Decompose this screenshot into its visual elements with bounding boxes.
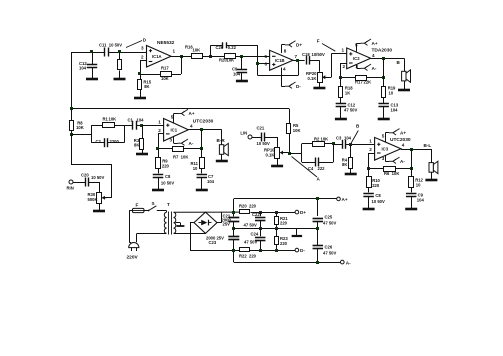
node column plus <box>232 211 235 214</box>
capacitor C9 <box>237 69 248 71</box>
svg-text:C23: C23 <box>209 240 217 245</box>
capacitor C2 2200 <box>104 138 106 147</box>
node fb2 left <box>367 167 370 170</box>
ground R30 <box>93 210 105 213</box>
capacitor C22 <box>260 212 262 216</box>
svg-text:C18: C18 <box>302 52 310 57</box>
speaker B (top channel) <box>402 71 406 81</box>
resistor R2 10K <box>313 142 325 147</box>
svg-text:T: T <box>167 202 170 207</box>
ground R12/C9b <box>405 208 417 211</box>
svg-text:RIN: RIN <box>67 186 74 191</box>
svg-text:8K: 8K <box>134 143 139 148</box>
wire long mixing rail <box>71 108 289 110</box>
net label A with pointer line <box>292 157 318 178</box>
svg-text:47 50V: 47 50V <box>344 108 357 113</box>
svg-text:C22: C22 <box>252 212 260 217</box>
svg-text:F: F <box>317 39 320 44</box>
wire R20 to IC1B pin5 <box>242 56 270 58</box>
wire IC3 output vertical <box>411 149 413 177</box>
power stub IC3 V+ pin5 <box>385 133 387 142</box>
potentiometer RP20 <box>318 73 323 83</box>
wire IC2 output <box>371 58 404 60</box>
svg-text:A+: A+ <box>400 131 406 136</box>
ground R18/C12 branch <box>335 118 347 121</box>
svg-text:104: 104 <box>233 72 241 77</box>
wire bridge plus to rail <box>217 222 222 224</box>
power stub IC1B V+ pin8 <box>281 45 283 53</box>
resistor R23 220 vertical <box>275 237 279 245</box>
svg-text:2: 2 <box>158 128 161 133</box>
power stub IC1 V- pin3 <box>173 137 175 144</box>
svg-text:2200: 2200 <box>110 139 120 144</box>
ground RP10 <box>271 165 283 168</box>
resistor R21 220 vertical <box>275 217 279 225</box>
wire IC1A output <box>171 56 211 58</box>
ground R9/C8 <box>152 189 164 192</box>
svg-text:A+: A+ <box>372 41 378 46</box>
node IC1 output <box>200 128 203 131</box>
node rail left <box>70 107 73 110</box>
node IC1A feedback <box>138 72 141 75</box>
wire IC1 output <box>188 129 222 131</box>
svg-text:4: 4 <box>402 143 405 148</box>
node R8 bottom <box>70 133 73 136</box>
right filter column <box>317 199 319 216</box>
svg-text:104: 104 <box>207 179 215 184</box>
node C22 tap <box>259 211 262 214</box>
node IC1B output <box>296 59 299 62</box>
capacitor C26b <box>313 245 324 247</box>
resistor R5 from rail <box>287 124 291 134</box>
resistor R17b 22K feedback <box>356 76 367 81</box>
ground R3 <box>136 153 148 156</box>
svg-text:104: 104 <box>79 66 87 71</box>
svg-text:104: 104 <box>344 136 352 141</box>
node feedback right <box>382 76 385 79</box>
ground R15 <box>134 97 146 100</box>
power stub IC1B V- pin4 <box>281 68 283 87</box>
capacitor C12 <box>87 64 98 66</box>
capacitor C9b <box>406 193 417 195</box>
svg-text:D-: D- <box>300 248 305 253</box>
capacitor C21 input <box>261 133 263 142</box>
svg-text:1: 1 <box>342 48 345 53</box>
potentiometer RP10 volume <box>275 148 280 159</box>
filter capacitor C21 2000/25V <box>233 212 235 216</box>
wire secondary bottom to bridge <box>174 233 206 235</box>
svg-text:LIN: LIN <box>240 131 247 136</box>
ground bias resistor <box>114 78 126 81</box>
potentiometer R30 volume <box>97 193 102 204</box>
svg-text:D+: D+ <box>296 43 302 48</box>
power stub IC2 V- pin3 <box>356 65 358 69</box>
wire IC1A pin2 <box>140 60 147 62</box>
capacitor C13 <box>378 103 389 105</box>
resistor R12 zobel <box>409 177 414 188</box>
op-amp U3 UTC2030 left channel <box>164 119 189 142</box>
svg-text:10K: 10K <box>161 76 169 81</box>
op-amp U1A NE5532 <box>147 46 172 68</box>
resistor R15 to ground <box>138 80 142 90</box>
svg-text:A-: A- <box>372 66 377 71</box>
node loop2 out <box>332 142 335 145</box>
ground mid rail <box>296 229 298 235</box>
svg-text:C26: C26 <box>216 45 224 50</box>
svg-text:220: 220 <box>162 164 170 169</box>
wire to RP10 <box>277 137 279 147</box>
wire left vertical bus <box>71 52 73 109</box>
ground R19/C13 branch <box>378 118 390 121</box>
ground R11/C7 <box>196 189 208 192</box>
resistor R11 zobel <box>200 158 205 169</box>
node C11 right <box>118 50 121 53</box>
wire loop2 right edge <box>333 144 335 162</box>
wire IC2 output vertical to zobel <box>383 58 385 87</box>
svg-text:10: 10 <box>389 91 394 96</box>
node column mid <box>232 227 235 230</box>
node IC1A output <box>180 55 183 58</box>
svg-text:1K: 1K <box>345 91 350 96</box>
svg-text:IC2: IC2 <box>353 56 360 61</box>
ground C12 <box>86 78 98 81</box>
svg-text:8K: 8K <box>342 162 347 167</box>
ground speaker B <box>398 89 410 92</box>
svg-text:10 50V: 10 50V <box>91 175 104 180</box>
wire C18 to RP20 <box>309 60 319 62</box>
wire plug left to fuse <box>129 242 131 244</box>
wire loop2 left edge <box>301 144 303 162</box>
node C1 out <box>140 124 143 127</box>
wire PSU bottom outer rail <box>234 262 341 264</box>
svg-text:UTC2030: UTC2030 <box>193 119 214 125</box>
capacitor C18 <box>306 56 308 65</box>
svg-text:47 50V: 47 50V <box>323 221 336 226</box>
capacitor C8 electrolytic <box>153 174 164 176</box>
svg-text:10 50V: 10 50V <box>372 199 385 204</box>
op-amp U2 TDA2030 <box>347 48 371 69</box>
svg-text:47 50V: 47 50V <box>244 240 257 245</box>
svg-text:1: 1 <box>369 139 372 144</box>
ground R10/C8b <box>363 208 375 211</box>
svg-text:R6 10K: R6 10K <box>384 171 399 176</box>
svg-text:4: 4 <box>190 124 193 129</box>
svg-text:D+: D+ <box>300 210 306 215</box>
svg-text:0.1K: 0.1K <box>308 76 317 81</box>
wire loop right edge <box>124 125 126 143</box>
svg-text:10K: 10K <box>193 48 201 53</box>
svg-text:R17: R17 <box>355 80 363 85</box>
bridge rectifier diamond <box>194 212 217 233</box>
svg-text:2: 2 <box>141 55 144 60</box>
capacitor C3 104 <box>342 140 344 149</box>
wire PSU top outer rail <box>233 199 235 212</box>
svg-text:IC1: IC1 <box>171 128 178 133</box>
wire R30 wiper to R8 node <box>104 197 112 199</box>
svg-text:R20 220: R20 220 <box>239 204 257 209</box>
input connector RIN <box>69 180 73 184</box>
svg-text:C2: C2 <box>96 139 102 144</box>
svg-text:3: 3 <box>170 137 173 142</box>
wire RP20 wiper to IC2 pin1 <box>325 77 331 79</box>
capacitor C11 <box>104 48 106 57</box>
svg-text:IC3: IC3 <box>382 147 389 152</box>
wire secondary top to bridge and rail <box>174 211 240 213</box>
wire plug right to transformer primary <box>136 242 138 244</box>
wire bridge minus to bottom rail1 <box>190 222 194 224</box>
svg-text:C11 10 50V: C11 10 50V <box>99 43 122 48</box>
ground speaker B-L <box>425 179 437 182</box>
svg-text:10K: 10K <box>227 58 235 63</box>
ground C9 <box>236 80 248 83</box>
node IC1B pin6 <box>256 62 259 65</box>
node fb left <box>156 147 159 150</box>
svg-text:4: 4 <box>372 53 375 58</box>
resistor R22 220 <box>240 248 250 252</box>
bridge diode symbol <box>201 220 207 226</box>
svg-text:4: 4 <box>283 67 286 72</box>
node junction C12/top wire <box>90 50 93 53</box>
wire IC1B pin6 <box>258 63 270 65</box>
svg-text:104: 104 <box>417 198 425 203</box>
wire IC1 pin2 <box>158 133 164 135</box>
svg-text:C8: C8 <box>165 174 171 179</box>
mains plug 220V <box>129 243 139 248</box>
wire R8 node to RC loop <box>71 134 91 136</box>
svg-text:10/50V: 10/50V <box>312 52 325 57</box>
wire IC3 pin2 <box>369 153 375 155</box>
node mid R21 <box>275 227 278 230</box>
transformer core <box>168 212 170 235</box>
ground RP20 <box>313 87 325 90</box>
svg-text:C3: C3 <box>336 136 342 141</box>
svg-text:A-: A- <box>189 141 194 146</box>
center tap ground <box>176 222 181 224</box>
svg-text:8K: 8K <box>144 84 149 89</box>
svg-text:A+: A+ <box>189 111 195 116</box>
power stub IC1 V+ pin5 <box>173 114 175 124</box>
wire to speaker B <box>404 58 406 71</box>
node feedback left <box>339 76 342 79</box>
svg-text:5: 5 <box>265 54 268 59</box>
node top rail right column <box>316 197 319 200</box>
svg-text:R2: R2 <box>314 137 320 142</box>
wire IC1B output <box>293 60 305 62</box>
wire loop left edge <box>91 125 93 143</box>
svg-text:10 50V: 10 50V <box>161 181 174 186</box>
node mid rail right column <box>316 227 319 230</box>
svg-text:IC1A: IC1A <box>152 54 162 59</box>
capacitor C20 input <box>85 178 87 187</box>
svg-text:R22 220: R22 220 <box>239 254 257 259</box>
resistor R9 <box>156 158 161 169</box>
resistor R7 feedback <box>173 147 184 152</box>
net label F with pointer line <box>322 44 335 52</box>
svg-text:A-: A- <box>400 159 405 164</box>
svg-text:10: 10 <box>416 183 421 188</box>
node R21 top <box>275 211 278 214</box>
resistor R18 <box>339 87 343 98</box>
svg-text:A+: A+ <box>342 197 348 202</box>
svg-text:47 50V: 47 50V <box>323 251 336 256</box>
resistor R16 <box>192 54 203 59</box>
node mid C22 <box>259 227 262 230</box>
svg-text:6: 6 <box>265 62 268 67</box>
speaker B-R left channel <box>219 145 223 155</box>
resistor R19 <box>382 87 386 98</box>
net label D with pointer line <box>126 41 142 48</box>
resistor R8 <box>70 121 74 131</box>
wire to speaker B-L <box>431 149 433 163</box>
node IC2 output <box>382 57 385 60</box>
svg-text:R7 10K: R7 10K <box>173 155 188 160</box>
resistor bias (vertical) at input <box>118 60 122 70</box>
svg-text:8: 8 <box>284 48 287 53</box>
svg-text:B-R: B-R <box>217 138 226 143</box>
svg-text:104: 104 <box>391 108 399 113</box>
svg-text:C20: C20 <box>81 173 89 178</box>
svg-text:2: 2 <box>369 147 372 152</box>
fuse F <box>132 208 144 212</box>
wire junction to RC loop 2 <box>289 153 302 155</box>
net label B with pointer line <box>351 131 358 144</box>
capacitor C26 0.22 in top branch <box>222 42 224 48</box>
svg-text:NE5532: NE5532 <box>157 40 175 46</box>
ground R4 <box>345 173 357 176</box>
svg-text:1: 1 <box>158 120 161 125</box>
wire IC1 output vertical <box>201 130 203 158</box>
wire PSU mid rail ground <box>234 228 318 230</box>
svg-text:2: 2 <box>343 64 346 69</box>
svg-text:D-: D- <box>296 84 301 89</box>
node fb2 right <box>410 167 413 170</box>
power stub IC2 V+ pin5 <box>356 43 358 51</box>
ground speaker B-R <box>216 160 228 163</box>
svg-text:A-: A- <box>346 260 351 265</box>
resistor R20b 220 <box>240 210 250 214</box>
node mixing junction <box>288 152 291 155</box>
svg-text:C24: C24 <box>251 232 259 237</box>
svg-text:C21: C21 <box>257 125 265 130</box>
svg-text:0.1K: 0.1K <box>266 152 275 157</box>
node rail1 R23 <box>275 249 278 252</box>
resistor R1 10K <box>103 123 115 128</box>
transformer secondary winding <box>174 212 176 233</box>
resistor R4 to ground <box>349 158 353 169</box>
svg-text:10K: 10K <box>321 137 329 142</box>
node C9 tap <box>240 55 243 58</box>
svg-text:R17: R17 <box>161 66 169 71</box>
power stub IC3 V- pin3 <box>385 156 387 162</box>
svg-text:10K: 10K <box>109 117 117 122</box>
svg-text:220V: 220V <box>127 255 139 261</box>
svg-text:5: 5 <box>382 134 385 139</box>
svg-text:S: S <box>152 201 155 206</box>
svg-text:UTC2030: UTC2030 <box>390 137 411 143</box>
op-amp U1B NE5532 <box>270 50 293 70</box>
resistor R6 feedback <box>384 167 396 172</box>
speaker B-L right channel <box>429 163 433 173</box>
capacitor C1 104 <box>132 121 134 130</box>
wire top-left input segment <box>71 52 104 54</box>
svg-text:1: 1 <box>173 49 176 54</box>
svg-text:10K: 10K <box>76 125 84 130</box>
svg-text:C26: C26 <box>325 245 333 250</box>
svg-text:25V: 25V <box>223 222 231 227</box>
capacitor C4 222 <box>315 158 317 167</box>
node fb right <box>200 147 203 150</box>
svg-text:7: 7 <box>295 54 298 59</box>
wire to speaker B-R <box>221 130 223 145</box>
svg-text:220: 220 <box>372 183 380 188</box>
terminal minus output <box>341 260 345 264</box>
svg-text:3: 3 <box>141 46 144 51</box>
switch S <box>144 210 148 212</box>
svg-text:B-L: B-L <box>424 143 432 148</box>
filter capacitor C23 2000/25V <box>228 236 239 238</box>
wire feedback branch up-over <box>210 45 212 56</box>
svg-text:0.22: 0.22 <box>228 45 237 50</box>
wire IC2 pin2 <box>341 63 347 65</box>
resistor R3 to ground <box>140 139 144 150</box>
wire RP10 wiper junction <box>282 152 289 154</box>
terminal D+ output <box>295 210 299 214</box>
wire to R30 pot <box>99 182 101 192</box>
svg-text:IC1B: IC1B <box>275 58 285 63</box>
svg-text:C8: C8 <box>375 193 381 198</box>
svg-text:TDA2030: TDA2030 <box>372 48 393 54</box>
svg-text:10 50V: 10 50V <box>257 141 270 146</box>
svg-text:10: 10 <box>193 166 198 171</box>
node bottom rail right column <box>316 261 319 264</box>
capacitor C24 <box>260 229 262 236</box>
resistor R10 <box>367 177 372 188</box>
svg-text:10K: 10K <box>293 128 301 133</box>
transformer T primary winding <box>166 211 168 213</box>
resistor R20 <box>225 54 236 59</box>
op-amp U4 UTC2030 right channel <box>375 137 401 160</box>
terminal plus output <box>337 197 341 201</box>
svg-text:22K: 22K <box>364 80 372 85</box>
capacitor C8b electrolytic <box>363 193 374 195</box>
svg-text:47 50V: 47 50V <box>244 223 257 228</box>
node R16 output <box>209 55 212 58</box>
resistor R17 feedback <box>161 72 172 77</box>
node C3 out <box>349 143 352 146</box>
capacitor C7 <box>197 174 208 176</box>
node column rail1 <box>232 249 235 252</box>
svg-text:C1: C1 <box>128 118 134 123</box>
node IC3 output <box>410 148 413 151</box>
terminal D- output <box>295 248 299 252</box>
svg-text:104: 104 <box>137 118 145 123</box>
svg-text:3: 3 <box>382 156 385 161</box>
svg-text:220: 220 <box>280 221 288 226</box>
wire IC3 output <box>400 148 402 150</box>
svg-text:220: 220 <box>280 241 288 246</box>
capacitor C12b electrolytic <box>336 103 347 105</box>
svg-text:C4: C4 <box>308 166 314 171</box>
wire PSU rail1 minus distribution <box>235 250 295 252</box>
node rail1 C24 <box>259 249 262 252</box>
capacitor C25 <box>313 218 324 220</box>
svg-text:222: 222 <box>318 166 326 171</box>
svg-text:C25: C25 <box>325 215 333 220</box>
svg-text:500K: 500K <box>88 197 98 202</box>
svg-text:F: F <box>136 203 139 208</box>
